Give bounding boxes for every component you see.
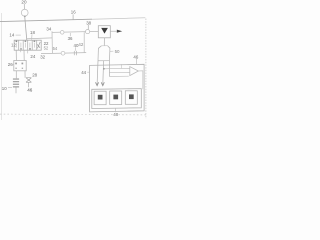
svg-text:42: 42 bbox=[78, 42, 83, 47]
svg-text:12: 12 bbox=[11, 42, 16, 47]
svg-text:44: 44 bbox=[81, 70, 86, 75]
svg-text:10: 10 bbox=[2, 86, 7, 91]
svg-text:14: 14 bbox=[9, 33, 14, 38]
svg-text:50: 50 bbox=[115, 49, 120, 54]
svg-text:28: 28 bbox=[32, 72, 37, 77]
svg-text:20: 20 bbox=[21, 0, 27, 5]
svg-text:36: 36 bbox=[68, 36, 73, 41]
svg-text:54: 54 bbox=[53, 46, 58, 51]
svg-text:46: 46 bbox=[27, 87, 33, 92]
svg-text:38: 38 bbox=[86, 20, 91, 25]
svg-text:34: 34 bbox=[46, 27, 51, 32]
svg-text:16: 16 bbox=[71, 10, 76, 15]
svg-text:52: 52 bbox=[44, 46, 49, 51]
svg-text:32: 32 bbox=[40, 54, 45, 59]
svg-text:18: 18 bbox=[30, 30, 35, 35]
svg-text:24: 24 bbox=[30, 54, 35, 59]
